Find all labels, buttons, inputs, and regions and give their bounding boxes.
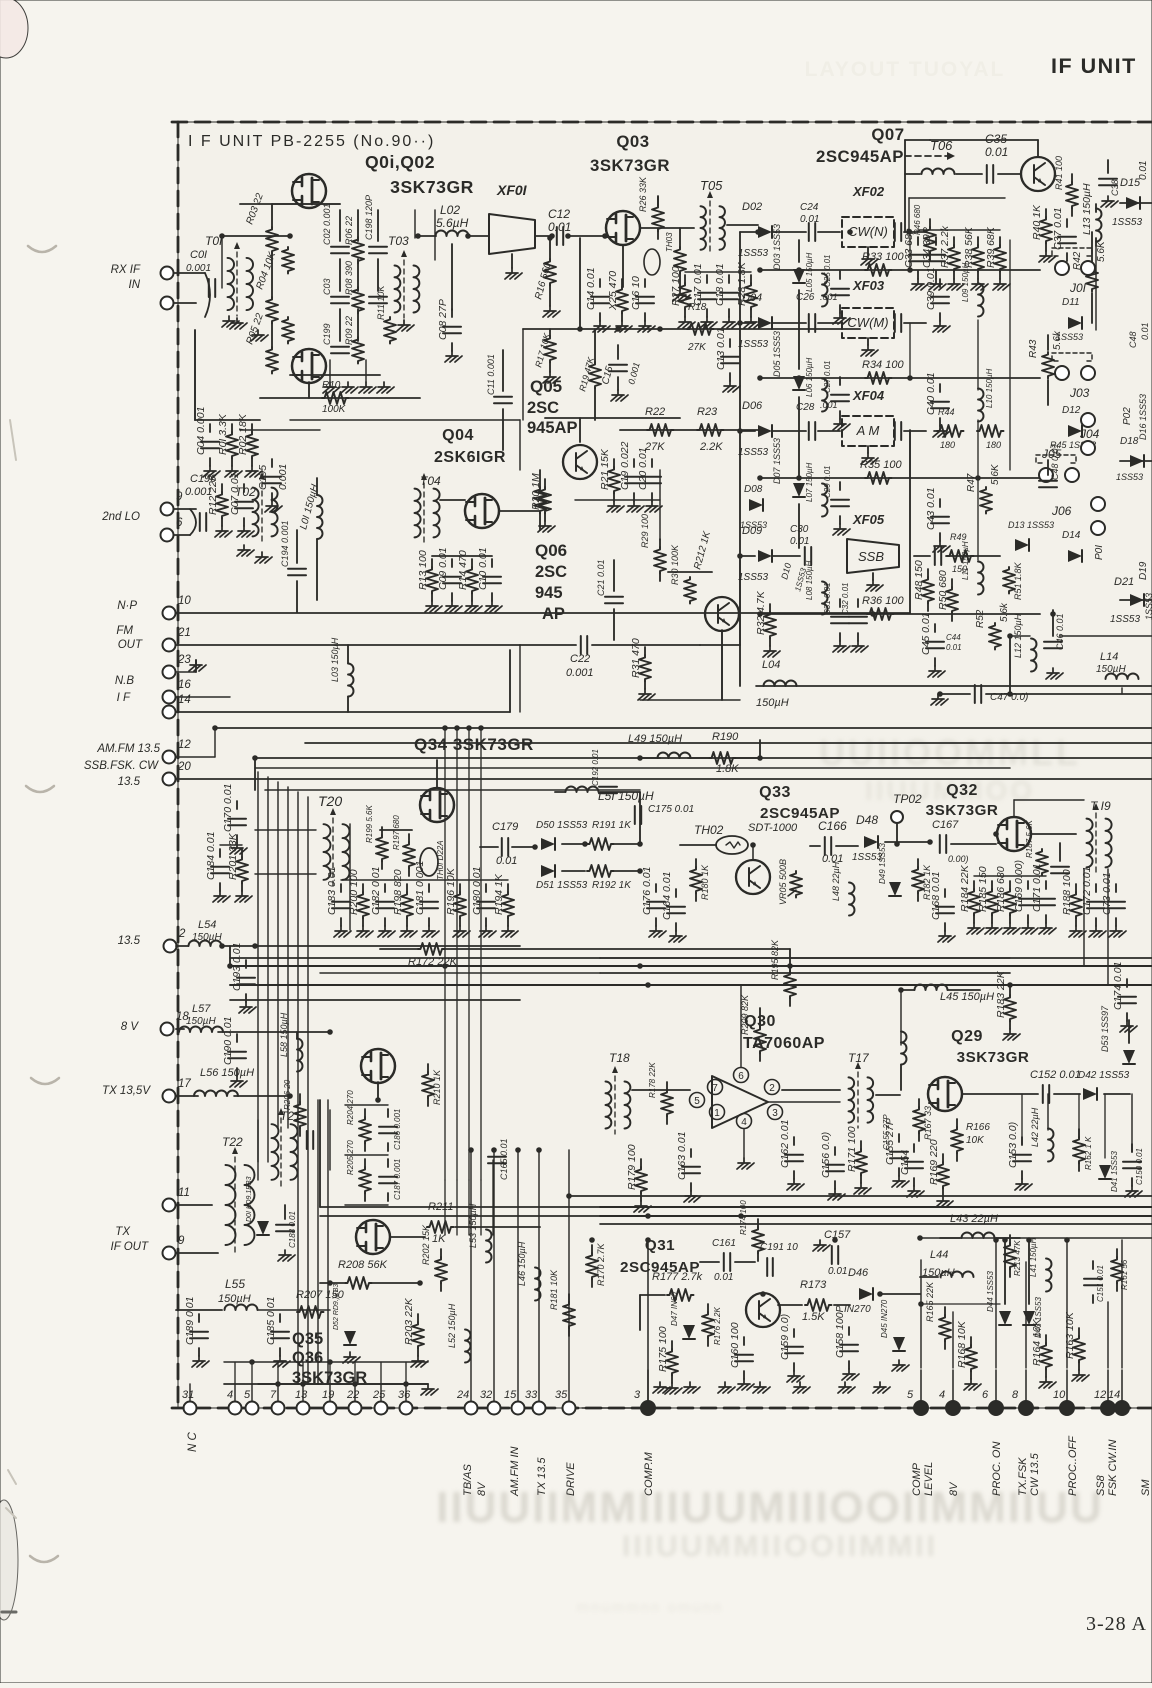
svg-text:T22: T22 [222,1135,243,1149]
svg-text:L54: L54 [198,919,216,931]
svg-text:C13 0.01: C13 0.01 [715,327,727,370]
svg-text:1SS53: 1SS53 [1144,593,1152,620]
svg-text:C174 0.01: C174 0.01 [1112,962,1124,1010]
svg-text:1SS53: 1SS53 [1110,614,1140,625]
svg-text:R165 22K: R165 22K [925,1281,935,1322]
svg-text:C45 0.01: C45 0.01 [920,612,932,655]
svg-text:D13 1SS53: D13 1SS53 [1008,520,1054,530]
svg-text:150µH: 150µH [192,932,222,943]
svg-text:C18 0.01: C18 0.01 [714,263,726,306]
svg-text:C182 0.01: C182 0.01 [370,867,382,915]
svg-text:R186 680: R186 680 [995,866,1007,912]
svg-text:12: 12 [1094,1389,1106,1401]
svg-text:C22: C22 [570,653,590,665]
svg-text:N·P: N·P [117,600,137,612]
svg-text:C150 0.01: C150 0.01 [1135,1148,1144,1185]
svg-text:J06: J06 [1051,504,1072,518]
svg-text:35: 35 [555,1389,568,1401]
svg-text:J04: J04 [1079,427,1100,441]
svg-text:R176 2.2K: R176 2.2K [713,1307,722,1345]
svg-text:0.001: 0.001 [566,667,594,679]
svg-text:C155 27P: C155 27P [882,1114,891,1150]
svg-text:1SS53: 1SS53 [738,447,768,458]
svg-text:2SC: 2SC [527,399,559,417]
svg-text:10: 10 [178,595,191,607]
svg-text:3SK73GR: 3SK73GR [957,1049,1030,1066]
svg-text:16: 16 [178,679,191,691]
svg-text:17: 17 [178,1078,191,1090]
svg-text:FM: FM [116,625,133,637]
svg-text:5.6µH: 5.6µH [436,216,469,230]
svg-text:LEVEL: LEVEL [923,1462,935,1496]
svg-text:T05: T05 [700,178,723,193]
svg-text:C48 0.01: C48 0.01 [1050,443,1060,480]
svg-text:1: 1 [714,1108,720,1119]
svg-text:TX 13,5V: TX 13,5V [102,1085,151,1097]
svg-text:C186 0.001: C186 0.001 [393,1109,402,1150]
svg-text:C192 0.01: C192 0.01 [591,749,600,786]
svg-text:0.01: 0.01 [828,1266,847,1277]
svg-text:9: 9 [176,491,183,503]
svg-text:7: 7 [712,1083,718,1094]
svg-text:R170 2.7K: R170 2.7K [596,1242,606,1286]
svg-text:C21 0.01: C21 0.01 [596,559,606,596]
svg-text:R22: R22 [645,406,665,418]
svg-text:P02: P02 [1122,407,1133,425]
svg-text:SS8: SS8 [1095,1474,1107,1496]
svg-text:L44: L44 [930,1249,948,1261]
svg-text:J03: J03 [1069,386,1090,400]
svg-text:I F UNIT PB-2255 (No.90·: I F UNIT PB-2255 (No.90··) [188,133,435,150]
svg-text:RX IF: RX IF [111,264,141,276]
svg-text:R13 100: R13 100 [417,550,429,590]
svg-text:10K: 10K [966,1135,985,1146]
svg-text:1SS53: 1SS53 [740,520,767,530]
svg-text:L13 150µH: L13 150µH [1081,183,1093,235]
svg-text:DRIVE: DRIVE [565,1462,577,1496]
svg-text:R163 10K: R163 10K [1064,1311,1076,1359]
svg-text:C38: C38 [1110,179,1120,196]
svg-text:C19 0.022: C19 0.022 [619,441,631,490]
svg-text:R08 390: R08 390 [344,261,354,295]
svg-text:R168 10K: R168 10K [956,1320,968,1368]
svg-text:C04 0.001: C04 0.001 [195,407,207,455]
svg-text:5.6K: 5.6K [990,463,1001,485]
svg-text:D45 IN270: D45 IN270 [880,1299,889,1338]
svg-text:14: 14 [178,694,191,706]
svg-text:XF03: XF03 [852,278,885,293]
svg-text:R166: R166 [966,1122,990,1133]
svg-text:24: 24 [456,1389,469,1401]
svg-text:8V: 8V [948,1481,960,1496]
svg-text:C188 0.01: C188 0.01 [288,1211,297,1248]
svg-text:20: 20 [177,761,191,773]
svg-text:C20 0.01: C20 0.01 [637,447,649,490]
svg-text:R185 150: R185 150 [977,866,989,912]
svg-text:0.01: 0.01 [800,214,819,225]
svg-text:0.01: 0.01 [985,145,1008,159]
svg-text:21: 21 [177,627,191,639]
svg-text:C160 100: C160 100 [729,1322,741,1368]
svg-text:C154: C154 [899,1150,911,1175]
svg-text:TH0I D22A: TH0I D22A [436,840,445,880]
svg-text:C176 0.01: C176 0.01 [641,867,653,915]
svg-text:6: 6 [738,1071,744,1082]
svg-text:R204 270: R204 270 [346,1090,355,1125]
svg-text:C164 0.01: C164 0.01 [661,872,673,920]
svg-text:1SS53: 1SS53 [738,572,768,583]
svg-text:5.6k: 5.6k [999,602,1010,622]
svg-text:C161: C161 [712,1238,736,1249]
svg-text:R167 33: R167 33 [923,1106,933,1140]
svg-text:C187 0.001: C187 0.001 [393,1159,402,1200]
svg-text:C165 0.01: C165 0.01 [499,1138,509,1180]
svg-text:D47 IN60: D47 IN60 [670,1292,679,1326]
svg-text:P0I: P0I [1094,545,1105,560]
svg-text:D16 1SS53: D16 1SS53 [1138,394,1148,440]
svg-text:0.00): 0.00) [948,854,969,864]
svg-text:150µH: 150µH [218,1293,251,1305]
svg-text:R191 1K: R191 1K [592,820,632,831]
svg-text:150: 150 [952,564,967,574]
svg-text:L10 150µH: L10 150µH [985,368,994,408]
svg-text:R210 1K: R210 1K [432,1069,442,1105]
svg-text:12: 12 [178,739,191,751]
svg-text:8 V: 8 V [121,1021,140,1033]
svg-text:C151 0.01: C151 0.01 [1096,1265,1105,1302]
svg-text:6: 6 [982,1389,989,1401]
svg-text:C08 27P: C08 27P [437,299,449,340]
svg-text:R49: R49 [950,532,967,542]
svg-text:9: 9 [178,1235,185,1247]
svg-text:C163 0.01: C163 0.01 [676,1132,688,1180]
svg-text:2SK6IGR: 2SK6IGR [434,449,506,466]
svg-text:CW 13.5: CW 13.5 [1029,1452,1041,1496]
svg-text:R41 100: R41 100 [1054,156,1064,190]
svg-text:0.01: 0.01 [496,855,517,867]
svg-text:5.6K: 5.6K [1096,240,1107,262]
svg-text:C16 10: C16 10 [630,276,642,310]
svg-text:6: 6 [176,517,183,529]
svg-text:R188 100: R188 100 [1061,869,1073,915]
svg-text:R187 5.6K: R187 5.6K [1025,820,1034,858]
svg-text:TH02: TH02 [694,823,724,837]
svg-text:2.2K: 2.2K [699,441,723,453]
svg-text:R169 220: R169 220 [928,1139,940,1185]
svg-text:C09 0.01: C09 0.01 [437,547,449,590]
svg-text:SDT-1000: SDT-1000 [748,822,798,834]
svg-text:Q04: Q04 [442,427,474,444]
svg-text:LAYOUT TUOYAL: LAYOUT TUOYAL [805,58,1006,81]
svg-text:3: 3 [772,1108,778,1119]
svg-text:R171 100: R171 100 [846,1126,858,1172]
svg-text:7: 7 [270,1389,277,1401]
svg-text:R52: R52 [975,609,986,628]
svg-text:C73 0.01: C73 0.01 [1101,872,1113,915]
svg-text:R211: R211 [428,1201,453,1213]
svg-text:X25 470: X25 470 [607,271,619,311]
svg-text:mnummnn omunn: mnummnn omunn [577,1599,724,1616]
svg-text:R203 22K: R203 22K [403,1297,415,1345]
svg-text:27K: 27K [687,342,707,353]
svg-text:C158 100P: C158 100P [834,1305,846,1358]
svg-text:COMP: COMP [911,1462,923,1496]
svg-text:R29 100: R29 100 [640,514,650,548]
svg-text:R43: R43 [1028,339,1039,358]
svg-text:R208 56K: R208 56K [338,1259,388,1271]
svg-text:C32 0.01: C32 0.01 [841,583,850,615]
svg-text:R175 100: R175 100 [657,1326,669,1372]
svg-text:D19: D19 [1138,561,1149,580]
svg-text:5: 5 [244,1389,251,1401]
svg-text:23: 23 [177,654,191,666]
svg-text:180: 180 [986,440,1001,450]
svg-text:D50 1SS53: D50 1SS53 [536,820,588,831]
svg-text:COMP.M: COMP.M [643,1451,655,1496]
svg-text:945: 945 [535,584,563,602]
svg-text:945AP: 945AP [527,419,577,437]
svg-text:D02: D02 [742,201,762,213]
svg-text:15: 15 [504,1389,517,1401]
svg-text:D08: D08 [744,484,763,495]
svg-text:R40 1K: R40 1K [1031,204,1043,240]
svg-text:4: 4 [741,1117,747,1128]
svg-text:L49 150µH: L49 150µH [628,733,682,745]
svg-text:14: 14 [1108,1389,1120,1401]
svg-text:L09 150µH: L09 150µH [961,262,970,302]
svg-text:L45 150µH: L45 150µH [940,991,994,1003]
svg-text:R47: R47 [966,473,977,492]
svg-text:36: 36 [398,1389,411,1401]
svg-text:R184 22K: R184 22K [959,864,971,912]
svg-text:5: 5 [907,1389,914,1401]
svg-text:C31 0.01: C31 0.01 [823,583,832,615]
svg-text:5.6k: 5.6k [1052,330,1063,350]
svg-text:R197 680: R197 680 [392,815,401,850]
svg-text:C179: C179 [492,821,518,833]
svg-text:13: 13 [295,1389,308,1401]
svg-text:R192 1K: R192 1K [592,880,632,891]
svg-text:R205 270: R205 270 [346,1140,355,1175]
svg-text:1SS53: 1SS53 [1116,472,1143,482]
svg-text:R177 2.7k: R177 2.7k [652,1271,703,1283]
svg-text:R50 680: R50 680 [937,570,949,610]
svg-text:L57: L57 [192,1003,211,1015]
svg-text:L42 22µH: L42 22µH [1030,1107,1040,1147]
svg-text:R196 10K: R196 10K [445,867,457,915]
svg-text:C194 0.001: C194 0.001 [280,520,290,567]
svg-text:0.01: 0.01 [1140,322,1150,340]
svg-text:L52 150µH: L52 150µH [447,1303,457,1348]
svg-text:PROC..OFF: PROC..OFF [1067,1435,1079,1496]
svg-text:D51 1SS53: D51 1SS53 [536,880,588,891]
svg-text:C46 0.01: C46 0.01 [1055,613,1065,650]
svg-text:3SK73GR: 3SK73GR [926,802,999,819]
svg-text:L48 22µH: L48 22µH [831,861,841,901]
svg-text:R198 820: R198 820 [392,869,404,915]
svg-text:C156 0.0): C156 0.0) [820,1132,832,1178]
svg-text:R30 100K: R30 100K [670,544,680,585]
svg-text:150µH: 150µH [1096,664,1126,675]
svg-text:L55: L55 [225,1277,245,1291]
svg-text:R51 1.8K: R51 1.8K [1013,561,1023,600]
svg-text:R39 68K: R39 68K [985,226,997,268]
svg-text:R173: R173 [800,1279,827,1291]
svg-text:0.01: 0.01 [548,220,571,234]
svg-text:Q32: Q32 [946,782,978,799]
svg-text:2: 2 [769,1083,775,1094]
svg-text:3SK73GR: 3SK73GR [590,156,670,175]
svg-text:D44 1SS53: D44 1SS53 [986,1271,995,1312]
svg-text:L03 150µH: L03 150µH [330,637,340,682]
svg-text:L05 150µH: L05 150µH [805,252,814,292]
svg-text:C185 0.01: C185 0.01 [265,1297,277,1345]
svg-text:TH03: TH03 [665,232,674,252]
svg-text:D52 RD9.)EB3: D52 RD9.)EB3 [333,1284,340,1330]
svg-text:1.5K: 1.5K [802,1311,825,1323]
svg-text:2SC945AP: 2SC945AP [816,147,904,166]
svg-text:T I9: T I9 [1090,799,1111,813]
svg-text:D46: D46 [848,1267,869,1279]
svg-text:R201 33K: R201 33K [227,832,239,880]
svg-text:2: 2 [178,928,186,940]
svg-text:R46 680: R46 680 [913,204,922,235]
svg-text:C167: C167 [932,819,959,831]
svg-text:D53 1SS97: D53 1SS97 [1100,1005,1110,1052]
svg-text:C170 0.01: C170 0.01 [222,784,234,832]
svg-text:R06 22: R06 22 [344,216,354,245]
svg-text:D41 1SS53: D41 1SS53 [1110,1151,1119,1192]
svg-text:32: 32 [480,1389,492,1401]
svg-text:R199 5.6K: R199 5.6K [365,805,374,843]
svg-text:Q29: Q29 [951,1028,983,1045]
svg-text:19: 19 [322,1389,334,1401]
svg-text:Q06: Q06 [535,541,567,560]
svg-text:0.001: 0.001 [277,464,289,490]
svg-text:13.5: 13.5 [118,776,141,788]
svg-text:D05 1SS53: D05 1SS53 [772,331,782,377]
svg-text:A M: A M [856,423,880,438]
svg-text:L14: L14 [1100,651,1118,663]
svg-text:D21: D21 [1114,576,1134,588]
svg-text:3SK73GR: 3SK73GR [390,177,474,197]
svg-text:R18: R18 [688,302,707,313]
svg-text:T17: T17 [848,1051,870,1065]
svg-text:2nd LO: 2nd LO [101,511,140,523]
svg-text:Q07: Q07 [871,125,904,144]
svg-text:C37 0.01: C37 0.01 [1052,207,1064,250]
svg-text:R23: R23 [697,406,718,418]
svg-text:C07 0.01: C07 0.01 [229,472,241,515]
svg-text:C159 0.0): C159 0.0) [779,1314,791,1360]
svg-text:R12 22K: R12 22K [207,473,219,515]
svg-text:SSB.FSK. CW: SSB.FSK. CW [84,760,159,772]
svg-text:C152 0.01: C152 0.01 [1030,1069,1081,1081]
svg-text:C171 0.01: C171 0.01 [1031,864,1043,912]
svg-text:0.01: 0.01 [946,643,962,652]
svg-text:L46 150µH: L46 150µH [517,1241,527,1286]
svg-text:22: 22 [346,1389,359,1401]
svg-text:AM.FM IN: AM.FM IN [509,1446,521,1497]
svg-text:100K: 100K [322,404,347,415]
svg-text:L43 22µH: L43 22µH [950,1213,998,1225]
svg-text:C03: C03 [322,278,332,295]
svg-text:C166: C166 [818,819,847,833]
svg-text:D15: D15 [1120,177,1141,189]
svg-text:4: 4 [939,1389,945,1401]
svg-text:2SC: 2SC [535,563,567,581]
svg-text:T20: T20 [318,793,342,809]
svg-text:150µH: 150µH [756,697,789,709]
svg-text:R38 56K: R38 56K [963,226,975,268]
svg-text:TX.FSK: TX.FSK [1017,1457,1029,1496]
svg-text:11: 11 [178,1187,190,1199]
svg-text:150µH: 150µH [186,1016,216,1027]
svg-text:C44: C44 [946,633,961,642]
svg-text:C29 0.01: C29 0.01 [823,466,832,498]
svg-text:3: 3 [634,1389,641,1401]
svg-text:FSK CW.IN: FSK CW.IN [1107,1440,1119,1496]
svg-text:R48 150: R48 150 [913,560,925,600]
svg-text:XF04: XF04 [852,388,885,403]
svg-text:D48: D48 [856,813,878,827]
svg-text:IF UNIT: IF UNIT [1051,54,1137,78]
svg-text:25: 25 [372,1389,386,1401]
svg-text:C181 0.001: C181 0.001 [414,861,426,915]
svg-text:.001: .001 [820,292,838,302]
svg-text:R35 100: R35 100 [860,459,902,471]
svg-text:SM: SM [1140,1479,1152,1496]
svg-text:0.01: 0.01 [714,1272,733,1283]
svg-text:C17 0.01: C17 0.01 [692,263,704,306]
svg-text:R44: R44 [938,407,955,417]
svg-text:R181 10K: R181 10K [549,1269,559,1310]
svg-text:L04: L04 [762,659,780,671]
svg-text:R37 2.2k: R37 2.2k [939,225,951,268]
svg-text:R21 15K: R21 15K [599,448,611,490]
svg-text:Q0i,Q02: Q0i,Q02 [365,152,435,172]
svg-text:I F: I F [117,692,131,704]
svg-text:D11: D11 [1062,297,1080,308]
svg-text:31: 31 [182,1389,194,1401]
svg-text:C35: C35 [985,132,1007,146]
svg-text:C48: C48 [1128,331,1138,348]
svg-text:D12: D12 [1062,405,1081,416]
svg-text:C0I: C0I [190,249,207,261]
svg-text:R11 10K: R11 10K [376,285,386,320]
svg-text:C189 0.01: C189 0.01 [184,1297,196,1345]
svg-text:C24: C24 [800,202,819,213]
svg-text:IN: IN [129,279,141,291]
svg-text:D18: D18 [1120,436,1139,447]
svg-text:C198 120P: C198 120P [364,195,374,240]
svg-text:R180 1K: R180 1K [700,864,710,900]
svg-text:0.001: 0.001 [186,263,211,274]
svg-text:10: 10 [1053,1389,1066,1401]
svg-text:C40 0.01: C40 0.01 [925,372,937,415]
svg-text:3-28 A: 3-28 A [1086,1613,1147,1635]
svg-text:R27 100: R27 100 [670,266,682,306]
svg-text:C14 0.01: C14 0.01 [585,267,597,310]
svg-text:TP02: TP02 [893,792,922,806]
svg-text:AM.FM 13.5: AM.FM 13.5 [96,743,160,755]
svg-text:UUIIOOMMLL: UUIIOOMMLL [819,732,1081,773]
svg-text:C190 0.01: C190 0.01 [222,1017,234,1065]
svg-text:1SS53: 1SS53 [738,339,768,350]
svg-text:TX: TX [115,1226,131,1238]
svg-text:D42 1SS53: D42 1SS53 [1078,1070,1130,1081]
svg-text:R09 22: R09 22 [344,316,354,345]
